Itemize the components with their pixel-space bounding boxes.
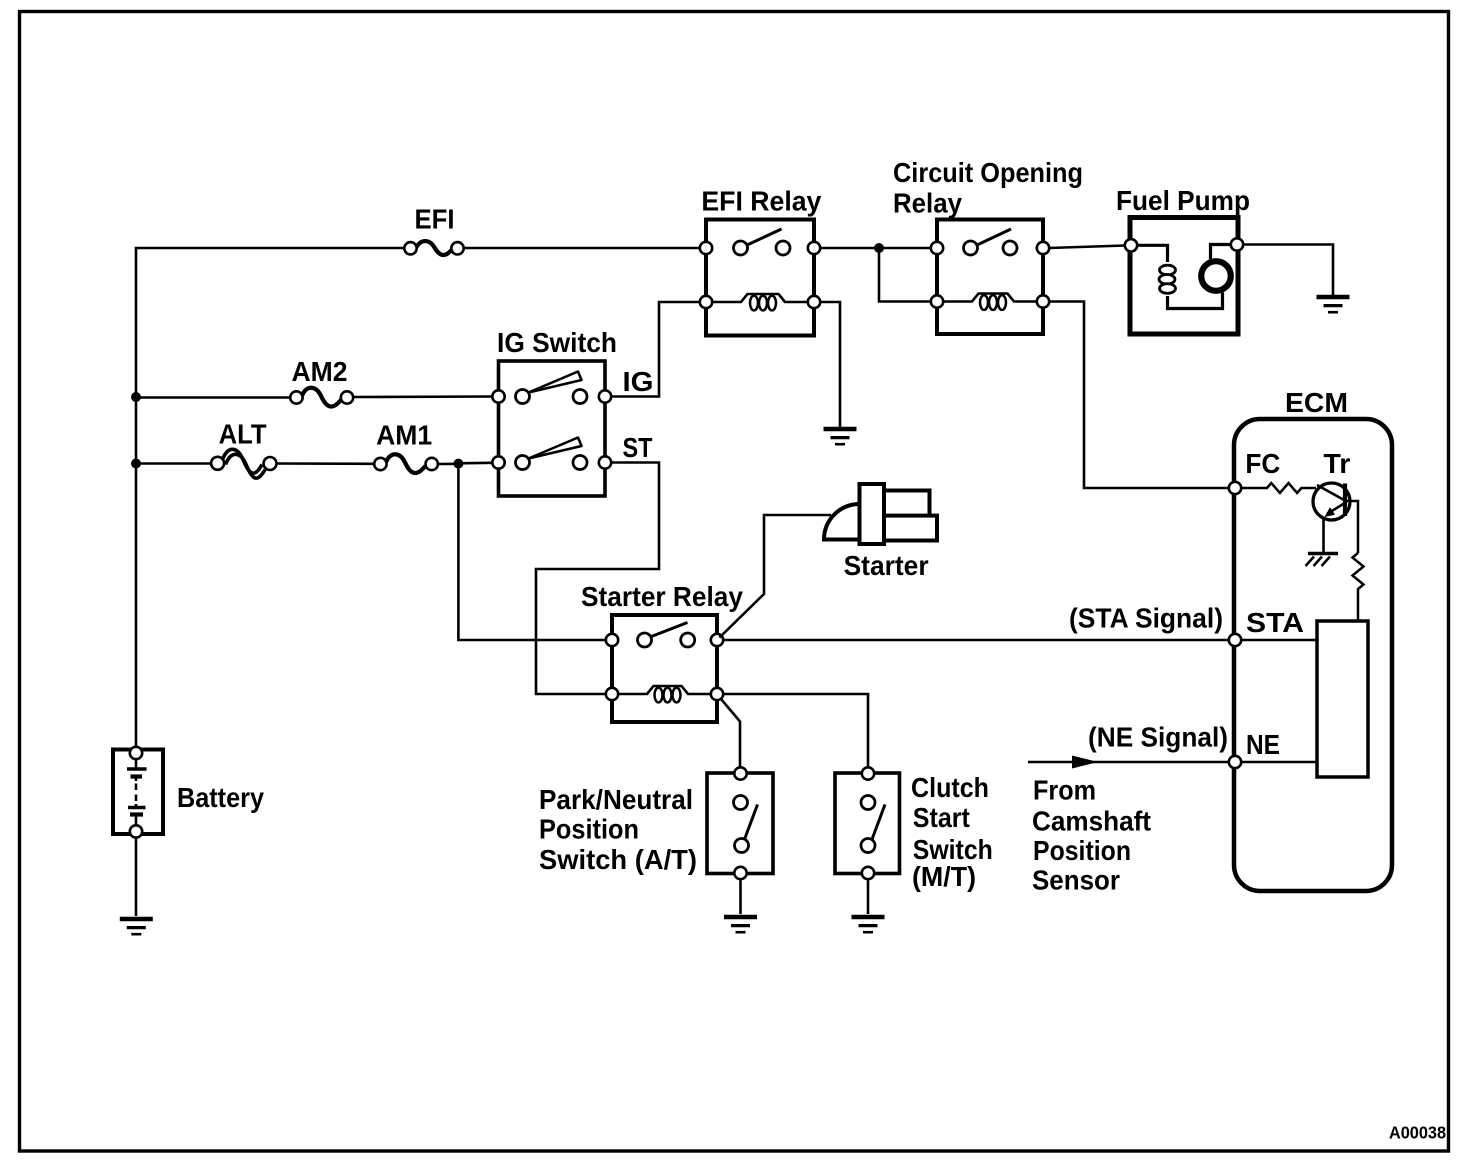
wire junction to starter relay switch	[458, 464, 606, 640]
contact starter relay switch	[638, 633, 652, 647]
pin fuel pump left	[1125, 239, 1137, 251]
coil starter relay	[618, 686, 711, 694]
fuel pump box	[1130, 218, 1238, 335]
wire junction to circuit opening relay coil	[879, 248, 931, 302]
fuel pump motor	[1211, 245, 1232, 260]
wire ALT to AM1	[277, 462, 375, 465]
ground fuel pump ground	[1317, 295, 1350, 300]
starter motor symbol	[824, 504, 860, 540]
svg-text:Battery: Battery	[177, 782, 264, 813]
wire top EFI fuse row left segment	[135, 247, 405, 250]
wire COR to fuel pump	[1049, 246, 1125, 249]
fuse AM2	[290, 391, 302, 403]
wire starter relay to starter	[720, 515, 832, 638]
svg-text:NE: NE	[1246, 729, 1280, 760]
wire ECM STA internal	[1241, 639, 1317, 642]
pin clutch start top	[862, 767, 874, 779]
wire camshaft sensor to ECM NE	[1028, 761, 1229, 764]
pin EFI relay coil left	[700, 296, 712, 308]
ground Tr emitter ground	[1308, 552, 1338, 556]
svg-text:ST: ST	[623, 432, 653, 463]
node starter-relay branch junction	[453, 459, 463, 469]
pin park neutral bottom	[734, 867, 746, 879]
wire EFI relay to circuit opening relay	[820, 247, 931, 250]
svg-text:Start: Start	[913, 802, 970, 833]
svg-text:(M/T): (M/T)	[912, 861, 976, 892]
pin ECM NE	[1229, 756, 1241, 768]
wire ALT row left segment	[136, 462, 212, 465]
svg-text:Starter Relay: Starter Relay	[581, 581, 743, 612]
relay EFI Relay box	[706, 220, 814, 336]
pin starter relay switch left	[606, 634, 618, 646]
wire AM2 fuse to IG switch	[353, 395, 493, 398]
relay Circuit Opening Relay box	[937, 220, 1043, 335]
pin COR switch right	[1037, 242, 1049, 254]
pin IG switch ST row left	[492, 456, 504, 468]
arrow NE signal direction	[1072, 756, 1098, 769]
pin IG switch ST row right	[573, 456, 587, 470]
fuel pump motor coil	[1137, 245, 1168, 262]
svg-text:Park/Neutral: Park/Neutral	[539, 784, 693, 815]
svg-text:Tr: Tr	[1323, 448, 1350, 479]
pin EFI relay switch left	[700, 242, 712, 254]
switch IG Switch box	[499, 361, 606, 496]
wire coil to clutch start switch	[723, 694, 868, 768]
wire battery positive feed vertical	[135, 247, 138, 748]
svg-text:AM1: AM1	[376, 420, 432, 451]
wire park neutral to ground	[739, 879, 742, 914]
svg-text:A00038: A00038	[1389, 1123, 1446, 1143]
contact COR switch	[964, 241, 978, 255]
ground clutch start ground	[852, 915, 885, 920]
svg-text:EFI: EFI	[415, 204, 455, 235]
svg-text:ECM: ECM	[1285, 387, 1348, 418]
ECM internal block	[1317, 621, 1368, 777]
fuse AM1	[374, 458, 386, 470]
pin EFI relay coil right	[808, 296, 820, 308]
wire COR coil to ECM FC	[1049, 302, 1229, 489]
svg-text:(NE Signal): (NE Signal)	[1088, 722, 1228, 753]
svg-text:From: From	[1033, 775, 1096, 806]
transistor Tr	[1317, 485, 1345, 501]
resistor FC base resistor	[1241, 483, 1316, 493]
node AM2 branch junction	[131, 392, 141, 402]
svg-text:AM2: AM2	[292, 356, 348, 387]
contact IG row arm	[529, 372, 582, 393]
svg-text:Sensor: Sensor	[1032, 865, 1120, 896]
pin IG switch IG row right	[573, 390, 587, 404]
svg-text:Relay: Relay	[893, 188, 962, 219]
wire coil to park neutral switch	[721, 699, 740, 768]
pin IG switch IG row left	[492, 390, 504, 402]
svg-text:Fuel Pump: Fuel Pump	[1116, 185, 1250, 216]
coil EFI relay	[712, 294, 808, 302]
battery Battery box	[113, 750, 163, 835]
contact park neutral switch	[734, 796, 748, 810]
svg-text:Clutch: Clutch	[911, 772, 989, 803]
svg-text:IG: IG	[623, 366, 654, 397]
pin COR coil right	[1037, 295, 1049, 307]
pin park neutral top	[734, 767, 746, 779]
svg-text:Circuit Opening: Circuit Opening	[893, 157, 1083, 188]
wire junction to IG switch ST pin	[458, 461, 492, 464]
wire Tr emitter to ground	[1322, 517, 1325, 553]
wire ST terminal to starter relay coil	[536, 463, 659, 695]
relay Starter Relay box	[612, 615, 717, 722]
wire Tr collector to resistor	[1345, 501, 1358, 553]
svg-text:STA: STA	[1246, 607, 1304, 638]
wire IG terminal to EFI relay coil	[611, 302, 700, 397]
wire AM2 row left segment	[136, 396, 291, 399]
battery cells	[135, 759, 138, 769]
pin EFI relay switch right	[808, 242, 820, 254]
pin starter relay switch right	[711, 634, 723, 646]
pin COR switch left	[931, 242, 943, 254]
svg-text:(STA Signal): (STA Signal)	[1069, 603, 1223, 634]
wire battery to ground	[135, 838, 138, 917]
wire starter relay to ECM STA	[723, 639, 1229, 642]
ground battery ground	[120, 917, 153, 922]
pin battery negative	[130, 825, 142, 837]
fuse EFI	[404, 242, 416, 254]
contact clutch start switch	[861, 796, 875, 810]
wire EFI relay coil to ground	[820, 302, 840, 427]
node ALT branch junction	[131, 459, 141, 469]
ground EFI relay coil ground	[824, 427, 857, 432]
pin clutch start bottom	[862, 867, 874, 879]
ground park neutral ground	[724, 915, 757, 920]
contact ST row arm	[529, 438, 582, 459]
svg-text:Switch (A/T): Switch (A/T)	[539, 844, 697, 875]
coil circuit opening relay	[943, 294, 1037, 302]
fusible link ALT	[211, 457, 224, 470]
wire ECM NE internal	[1241, 761, 1317, 764]
pin battery positive	[130, 747, 142, 759]
svg-text:FC: FC	[1245, 448, 1280, 479]
pin ECM FC	[1229, 482, 1241, 494]
svg-text:Camshaft: Camshaft	[1032, 806, 1151, 837]
wire AM1 to junction	[438, 462, 459, 465]
svg-text:EFI Relay: EFI Relay	[701, 186, 821, 217]
svg-text:IG Switch: IG Switch	[497, 327, 617, 358]
pin ECM STA	[1229, 634, 1241, 646]
wire EFI fuse to EFI relay	[464, 247, 701, 250]
svg-text:ALT: ALT	[219, 419, 267, 450]
resistor collector resistor	[1353, 553, 1364, 621]
svg-text:Position: Position	[1033, 835, 1131, 866]
pin COR coil left	[931, 295, 943, 307]
ECM box	[1234, 419, 1392, 891]
switch Park/Neutral Position Switch box	[707, 773, 773, 874]
switch Clutch Start Switch box	[835, 773, 900, 874]
svg-text:Position: Position	[539, 814, 639, 845]
pin starter relay coil left	[606, 688, 618, 700]
pin starter relay coil right	[711, 688, 723, 700]
node relay supply junction	[874, 243, 884, 253]
pin fuel pump right	[1231, 238, 1243, 250]
contact EFI relay switch	[734, 241, 748, 255]
wire fuel pump to ground	[1243, 245, 1333, 296]
wire clutch start to ground	[867, 879, 870, 914]
svg-text:Starter: Starter	[844, 550, 929, 581]
